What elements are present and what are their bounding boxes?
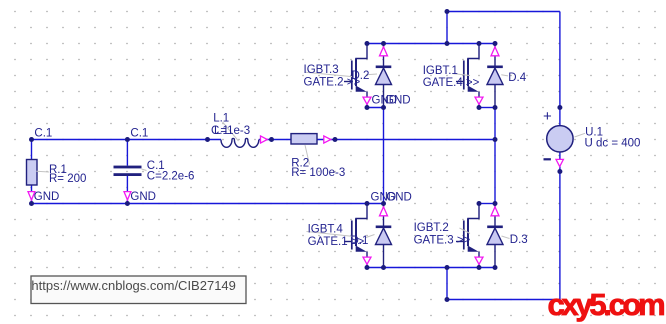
wire right leg midpoint vertical	[494, 108, 496, 204]
wire R.1 branch vertical	[31, 140, 33, 204]
probe arrow (D2 branch)	[380, 47, 388, 56]
wire lower-right module top stub	[479, 203, 495, 205]
svg-text:IGBT.2: IGBT.2	[414, 222, 449, 234]
svg-text:U dc = 400: U dc = 400	[585, 137, 641, 149]
svg-text:R= 200: R= 200	[49, 173, 86, 185]
svg-text:IGBT.3: IGBT.3	[304, 64, 339, 76]
diode D2	[352, 44, 392, 108]
wire upper-left module bottom stub	[367, 107, 384, 109]
inductor L1	[211, 113, 259, 148]
node A junctions (net A)	[29, 137, 34, 142]
url watermark box	[31, 276, 246, 304]
node junctions top rail	[445, 9, 450, 14]
svg-text:L.1: L.1	[213, 113, 229, 125]
svg-text:GND: GND	[385, 94, 411, 106]
wire bottom bridge rail y=267.5	[367, 267, 495, 269]
wire net B bottom (return rail y=203.5)	[32, 203, 384, 205]
probe arrow (D3 branch)	[491, 207, 499, 216]
svg-text:D.2: D.2	[352, 70, 370, 82]
svg-text:IGBT.1: IGBT.1	[423, 65, 458, 77]
ground GND (R1)	[28, 192, 35, 200]
svg-text:C=2.2e-6: C=2.2e-6	[147, 170, 195, 182]
resistor R1	[27, 160, 38, 186]
svg-text:L=1e-3: L=1e-3	[214, 125, 250, 137]
wire upper bridge rail y=43.5	[367, 43, 495, 45]
svg-text:cxy5.com: cxy5.com	[548, 287, 665, 322]
svg-text:GATE.4 >>: GATE.4 >>	[423, 77, 480, 89]
svg-text:D.4: D.4	[508, 72, 527, 84]
node B junctions (net B)	[29, 201, 34, 206]
svg-text:GND: GND	[386, 191, 412, 203]
wire net A top (load output rail y=139.5)	[32, 139, 496, 141]
wire C.1 branch vertical	[126, 140, 128, 204]
ground marker (IGBT.4 emitter)	[363, 257, 371, 264]
probe arrow (D4 branch)	[491, 47, 499, 56]
wire bottom dc rail	[447, 152, 560, 300]
diode D4	[487, 44, 527, 108]
svg-text:R= 100e-3: R= 100e-3	[291, 167, 345, 179]
transistor IGBT.4	[307, 204, 368, 268]
capacitor C1	[114, 160, 195, 182]
ground marker (U1 minus)	[556, 159, 563, 166]
resistor R2	[291, 134, 345, 180]
svg-text:D.1: D.1	[351, 235, 369, 247]
svg-text:GND: GND	[34, 191, 60, 203]
probe arrow (D1 branch)	[380, 207, 388, 216]
ground marker (IGBT.3 emitter)	[363, 97, 371, 104]
transistor IGBT.1	[423, 44, 480, 108]
svg-text:IGBT.4: IGBT.4	[308, 224, 344, 236]
svg-text:D.3: D.3	[510, 234, 528, 246]
probe arrow (after R2)	[324, 136, 331, 143]
transistor IGBT.2	[414, 204, 479, 268]
wire left leg midpoint vertical (crosses net A, no junction)	[383, 108, 385, 204]
node junctions source terminals	[557, 105, 562, 110]
wire upper-right module bottom stub	[479, 107, 495, 109]
svg-text:GATE.3 >>: GATE.3 >>	[414, 235, 471, 247]
source U1 dc voltage	[543, 108, 640, 160]
transistor IGBT.3	[304, 44, 368, 108]
svg-text:GND: GND	[130, 191, 156, 203]
svg-text:C.1: C.1	[34, 128, 52, 140]
probe arrow (after L1)	[261, 136, 268, 143]
ground marker (IGBT.1 emitter)	[475, 97, 483, 104]
svg-text:+: +	[543, 108, 552, 125]
node junctions upper stubs	[365, 105, 370, 110]
svg-text:https://www.cnblogs.com/CIB271: https://www.cnblogs.com/CIB27149	[31, 278, 236, 293]
diode D3	[487, 204, 528, 268]
svg-text:C.1: C.1	[130, 128, 148, 140]
ground marker (IGBT.2 emitter)	[475, 257, 483, 264]
wire top dc rail	[447, 12, 560, 126]
node junctions bottom rail	[365, 265, 370, 270]
diode D1	[351, 204, 392, 268]
ground GND (C1)	[124, 192, 131, 200]
